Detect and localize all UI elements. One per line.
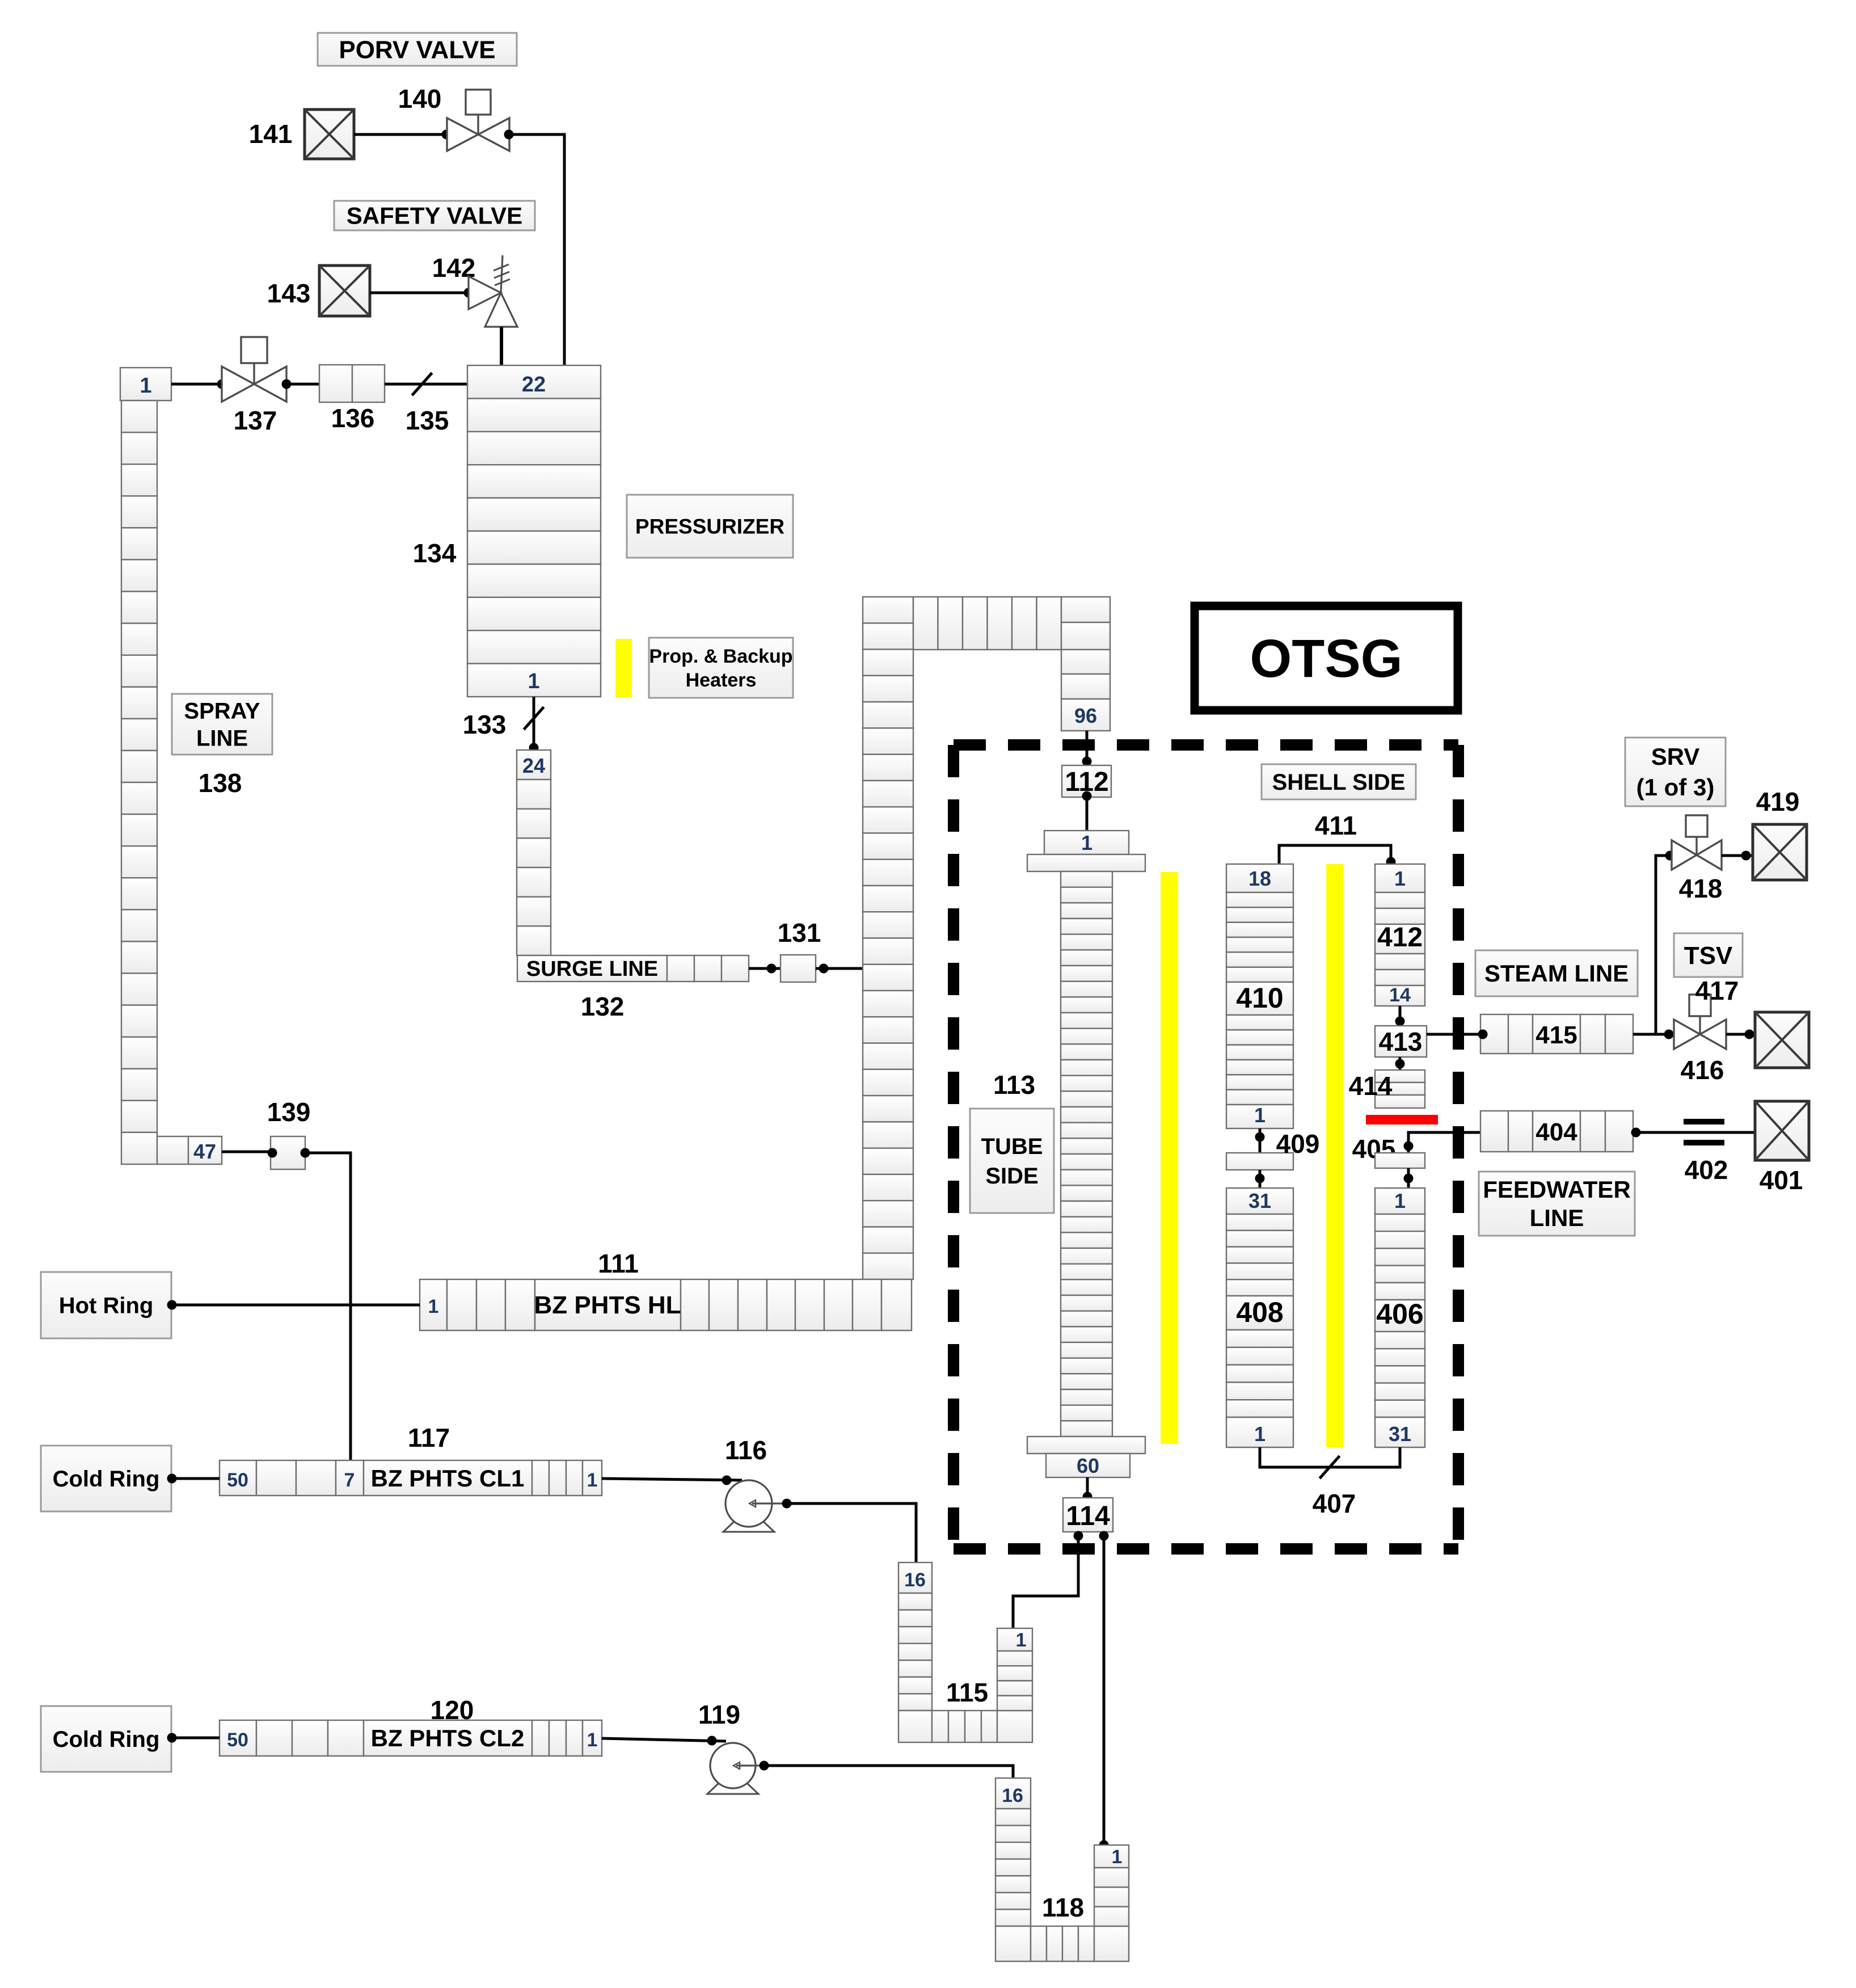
svg-text:1: 1: [587, 1729, 598, 1751]
wire pump 116 to pipe 115: [787, 1503, 916, 1562]
svg-text:96: 96: [1074, 704, 1097, 727]
junction dot: [1665, 851, 1675, 861]
label box Prop. & Backup Heaters: [649, 638, 793, 698]
wire 114 to pipe 115 inlet: [1013, 1532, 1078, 1628]
junction slash 135: [412, 373, 432, 395]
junction dot: [167, 1474, 177, 1484]
boundary volume 143: [319, 266, 370, 316]
svg-text:116: 116: [725, 1435, 767, 1465]
label box PORV VALVE: [318, 33, 517, 66]
svg-text:LINE: LINE: [1530, 1204, 1584, 1231]
shell side volume 406 column: [1375, 1188, 1425, 1447]
safety valve 142: [469, 255, 517, 327]
shell side volume 408 column: [1226, 1188, 1293, 1447]
svg-text:1: 1: [1016, 1629, 1027, 1651]
junction dot: [217, 380, 227, 389]
tube side top flange: [1027, 854, 1145, 871]
svg-text:(1 of 3): (1 of 3): [1636, 774, 1715, 801]
separator bars 402: [1684, 1119, 1724, 1124]
svg-text:Hot Ring: Hot Ring: [59, 1294, 154, 1319]
svg-text:18: 18: [1248, 867, 1271, 890]
svg-text:138: 138: [199, 768, 242, 798]
svg-text:113: 113: [993, 1070, 1035, 1100]
label box TSV: [1674, 933, 1743, 977]
label box PRESSURIZER: [627, 495, 793, 558]
junction dot: [167, 1733, 177, 1743]
PORV valve 140: [447, 90, 509, 151]
boundary volume 417: [1755, 1012, 1809, 1068]
cold leg pipe 117 (BZ PHTS CL1): [220, 1460, 602, 1496]
svg-text:16: 16: [904, 1569, 926, 1591]
wire valve 137 to volume 136: [286, 383, 319, 386]
volume 96 cell: [1061, 699, 1110, 731]
cold leg pipe 120 (BZ PHTS CL2): [220, 1720, 602, 1756]
svg-text:SIDE: SIDE: [985, 1164, 1038, 1189]
svg-text:1: 1: [1254, 1103, 1266, 1127]
label box Hot Ring: [41, 1272, 171, 1338]
pipe 115 left leg: [899, 1593, 932, 1711]
wire 404 to junction 405: [1408, 1132, 1480, 1153]
OTSG dashed boundary bottom edge: [954, 1543, 1458, 1555]
svg-text:STEAM LINE: STEAM LINE: [1484, 960, 1629, 987]
svg-text:50: 50: [227, 1729, 248, 1751]
wire pressurizer to surge line (junction 133): [533, 697, 535, 750]
svg-text:118: 118: [1042, 1893, 1084, 1922]
svg-text:140: 140: [398, 84, 442, 113]
boundary volume 401: [1755, 1101, 1809, 1160]
svg-text:Heaters: Heaters: [686, 669, 757, 691]
junction dot: [1099, 1840, 1109, 1850]
label box Cold Ring 1: [41, 1446, 171, 1511]
pipe 115 right leg volume 1 header: [997, 1628, 1032, 1651]
spray line pipe 138 bottom elbow: [157, 1136, 222, 1164]
wire 114 to pipe 118 inlet: [1103, 1532, 1106, 1845]
yellow heater bar (pressurizer): [615, 639, 632, 698]
svg-text:Cold Ring: Cold Ring: [53, 1467, 160, 1492]
SRV valve 418: [1672, 815, 1722, 870]
svg-text:411: 411: [1315, 811, 1357, 840]
hot leg U right leg pipe: [1061, 597, 1110, 699]
hot leg riser pipe (left leg of U): [863, 597, 913, 1279]
junction box 409: [1226, 1153, 1293, 1170]
junction box 131: [781, 955, 816, 982]
svg-text:SHELL SIDE: SHELL SIDE: [1272, 770, 1406, 795]
svg-text:SURGE LINE: SURGE LINE: [526, 957, 658, 981]
hot leg U top horizontal pipe: [913, 597, 1061, 650]
svg-text:415: 415: [1536, 1021, 1577, 1049]
junction dot: [1404, 1142, 1414, 1151]
svg-text:1: 1: [1394, 1189, 1406, 1212]
wire Cold Ring to 120: [171, 1737, 220, 1739]
svg-text:410: 410: [1236, 982, 1283, 1014]
junction box 405: [1375, 1153, 1425, 1168]
svg-text:412: 412: [1377, 923, 1423, 953]
label box SRV (1 of 3): [1625, 738, 1726, 806]
OTSG dashed boundary right edge: [1453, 745, 1464, 1549]
OTSG dashed boundary left edge: [948, 745, 959, 1549]
svg-text:406: 406: [1376, 1298, 1423, 1330]
junction dot: [1083, 1492, 1092, 1502]
svg-text:419: 419: [1756, 787, 1800, 816]
junction dot: [167, 1300, 177, 1310]
junction box 413: [1375, 1026, 1427, 1057]
svg-text:SAFETY VALVE: SAFETY VALVE: [347, 203, 522, 229]
wire 405 to 406: [1407, 1168, 1410, 1188]
junction dot: [722, 1476, 732, 1485]
shell side volume 410 column: [1226, 864, 1293, 1128]
junction box 112: [1062, 765, 1111, 797]
wire 14 to junction 413: [1399, 1006, 1402, 1026]
svg-text:16: 16: [1002, 1785, 1023, 1806]
svg-text:Cold Ring: Cold Ring: [53, 1727, 160, 1752]
junction dot: [707, 1736, 717, 1746]
svg-text:1: 1: [428, 1296, 439, 1317]
feedwater line pipe 404: [1480, 1111, 1633, 1152]
junction dot: [1478, 1030, 1488, 1039]
junction dot: [767, 964, 777, 974]
hot leg pipe 111 (BZ PHTS HL): [420, 1279, 912, 1330]
wire 112 to tube side top: [1086, 797, 1089, 831]
svg-text:131: 131: [778, 918, 821, 947]
wire 413 to steam line 415: [1427, 1033, 1480, 1036]
pump 119: [707, 1743, 770, 1794]
svg-text:133: 133: [463, 710, 507, 739]
svg-text:117: 117: [408, 1423, 450, 1452]
svg-text:409: 409: [1276, 1129, 1320, 1159]
junction dot: [1082, 791, 1092, 801]
svg-text:408: 408: [1236, 1296, 1283, 1328]
svg-text:BZ PHTS CL1: BZ PHTS CL1: [371, 1465, 525, 1492]
junction dot: [1074, 1531, 1083, 1541]
svg-text:1: 1: [1081, 831, 1092, 854]
wire 117 to pump 116: [602, 1479, 742, 1480]
wire 47 to junction 139: [222, 1151, 271, 1153]
pipe 115 left leg volume 16 header: [899, 1562, 932, 1593]
wire valve 418 to 419: [1722, 854, 1753, 857]
wire 413 to 414: [1399, 1057, 1402, 1070]
svg-text:SRV: SRV: [1651, 743, 1700, 770]
svg-text:31: 31: [1248, 1189, 1271, 1212]
junction dot: [819, 964, 829, 974]
wire 407 connecting 408 to 406: [1260, 1447, 1400, 1467]
wire junction 139 down to cold leg 117: [305, 1153, 351, 1460]
svg-text:414: 414: [1349, 1071, 1393, 1101]
junction box 114: [1063, 1498, 1113, 1532]
pipe 118 bottom: [996, 1926, 1129, 1961]
wire surge line to junction 131: [749, 967, 781, 970]
svg-text:143: 143: [267, 279, 311, 308]
junction dot: [1741, 851, 1751, 861]
junction dot: [1082, 757, 1092, 766]
junction dot: [1404, 1174, 1414, 1183]
junction dot: [1745, 1030, 1754, 1039]
svg-text:141: 141: [249, 119, 293, 149]
svg-text:OTSG: OTSG: [1250, 629, 1402, 689]
shell side volume 412 column: [1375, 864, 1425, 1006]
junction dot: [282, 380, 292, 389]
junction dot: [760, 1761, 769, 1771]
volume 136: [319, 365, 385, 402]
surge line horizontal pipe 132: [517, 955, 749, 982]
svg-text:402: 402: [1685, 1155, 1728, 1185]
boundary volume 419: [1753, 824, 1807, 880]
label box TUBE SIDE: [970, 1109, 1054, 1213]
TSV valve 416: [1674, 995, 1726, 1049]
tube side pipe 113: [1061, 871, 1112, 1437]
junction dot: [1099, 1531, 1109, 1541]
pressurizer volume 134: [467, 365, 601, 697]
svg-text:22: 22: [522, 373, 546, 397]
wire steam line branch up to SRV valve 418: [1656, 856, 1672, 1034]
wire safety valve to pressurizer top: [500, 327, 503, 367]
svg-text:139: 139: [267, 1097, 311, 1127]
label box FEEDWATER LINE: [1479, 1172, 1635, 1236]
spray line pipe 138 vertical: [121, 401, 157, 1164]
svg-text:115: 115: [946, 1678, 988, 1707]
junction dot: [442, 130, 452, 140]
junction dot: [1631, 1128, 1641, 1138]
svg-text:BZ PHTS CL2: BZ PHTS CL2: [371, 1725, 525, 1751]
junction dot: [782, 1499, 792, 1509]
svg-text:136: 136: [331, 403, 375, 433]
junction dot: [1395, 1059, 1405, 1069]
tube side top cap volume 1: [1044, 831, 1129, 854]
wire valve 140 to pressurizer top: [509, 134, 564, 367]
svg-text:134: 134: [413, 538, 457, 568]
wire 411 connecting 410 to 412: [1279, 845, 1391, 864]
wire Cold Ring to 117: [171, 1477, 220, 1480]
svg-text:TSV: TSV: [1684, 942, 1733, 970]
tube side bottom flange: [1027, 1437, 1145, 1454]
wire 410 to junction 409: [1259, 1128, 1262, 1153]
svg-text:407: 407: [1313, 1489, 1356, 1518]
svg-text:413: 413: [1379, 1027, 1423, 1056]
svg-text:7: 7: [344, 1469, 355, 1491]
surge line vertical pipe: [517, 780, 551, 955]
wire 141 to valve 140: [354, 133, 446, 136]
red heater bar 405 level: [1366, 1115, 1438, 1124]
junction box 139: [271, 1136, 305, 1169]
svg-text:LINE: LINE: [196, 726, 248, 751]
svg-text:416: 416: [1681, 1055, 1724, 1085]
junction dot: [464, 288, 474, 298]
pipe 118 left leg volume 16 header: [996, 1778, 1031, 1809]
junction dot: [1386, 857, 1396, 867]
boundary volume 141: [305, 109, 354, 159]
pipe 118 right leg volume 1 header: [1094, 1845, 1129, 1868]
pipe 118 left leg: [996, 1809, 1031, 1926]
svg-text:FEEDWATER: FEEDWATER: [1483, 1176, 1631, 1203]
wire pump 119 to pipe 118: [764, 1766, 1013, 1778]
yellow heat-transfer bar left (tube to shell): [1161, 872, 1178, 1444]
wire spray volume to valve 137: [171, 383, 222, 386]
svg-text:47: 47: [193, 1140, 216, 1163]
svg-text:1: 1: [1112, 1846, 1123, 1868]
svg-text:PORV VALVE: PORV VALVE: [339, 36, 495, 64]
junction dot: [529, 743, 539, 753]
svg-text:50: 50: [227, 1469, 248, 1491]
svg-text:BZ PHTS HL: BZ PHTS HL: [534, 1291, 681, 1319]
svg-text:1: 1: [528, 669, 539, 693]
svg-text:PRESSURIZER: PRESSURIZER: [635, 515, 784, 538]
wire 136 to pressurizer (junction 135): [385, 383, 467, 386]
junction dot: [1255, 1174, 1265, 1183]
label box SHELL SIDE: [1262, 764, 1416, 799]
svg-text:1: 1: [140, 374, 151, 398]
OTSG title box: [1195, 606, 1458, 710]
svg-text:418: 418: [1679, 874, 1723, 903]
label box SPRAY LINE: [172, 694, 272, 755]
svg-text:119: 119: [698, 1700, 740, 1729]
svg-text:401: 401: [1760, 1165, 1803, 1195]
wire 415 to TSV valve 416: [1633, 1033, 1674, 1036]
spray valve 137: [222, 337, 286, 402]
junction dot: [268, 1148, 277, 1158]
svg-text:60: 60: [1077, 1454, 1099, 1477]
svg-text:1: 1: [1254, 1422, 1266, 1446]
svg-text:Prop. & Backup: Prop. & Backup: [649, 646, 792, 667]
svg-text:417: 417: [1695, 976, 1739, 1005]
junction slash 407: [1319, 1456, 1339, 1479]
wire 60 to junction 114: [1086, 1477, 1089, 1498]
shell side volume 414 column: [1375, 1070, 1425, 1108]
tube side bottom cap volume 60: [1046, 1454, 1130, 1477]
svg-text:TUBE: TUBE: [981, 1134, 1043, 1159]
svg-text:31: 31: [1389, 1422, 1411, 1446]
wire 404 to boundary 401: [1633, 1131, 1755, 1134]
wire 96 to junction 112: [1086, 731, 1089, 765]
pipe 115 bottom: [899, 1711, 1032, 1742]
svg-text:SPRAY: SPRAY: [184, 699, 260, 724]
wire valve 416 to 417: [1726, 1033, 1755, 1036]
yellow heat-transfer bar right (shell columns): [1326, 864, 1343, 1447]
svg-text:114: 114: [1066, 1501, 1110, 1531]
junction slash 133: [524, 707, 543, 730]
svg-text:404: 404: [1536, 1118, 1577, 1146]
label box Cold Ring 2: [41, 1706, 171, 1772]
OTSG dashed boundary top edge: [954, 739, 1458, 751]
pipe 115 right leg: [997, 1651, 1032, 1711]
junction dot: [1255, 1132, 1265, 1142]
svg-text:1: 1: [587, 1469, 598, 1491]
label box SAFETY VALVE: [334, 201, 535, 230]
svg-text:132: 132: [581, 992, 625, 1021]
junction dot: [504, 130, 514, 140]
label box STEAM LINE: [1475, 950, 1638, 996]
svg-text:1: 1: [1394, 867, 1406, 890]
junction dot: [301, 1148, 310, 1158]
steam line pipe 415: [1480, 1014, 1633, 1054]
svg-text:111: 111: [598, 1249, 639, 1278]
junction dot: [1395, 1017, 1405, 1026]
wire 120 to pump 119: [602, 1738, 726, 1741]
pipe 118 right leg: [1094, 1868, 1129, 1926]
wire 409 to 408: [1259, 1170, 1262, 1188]
wire 143 to safety valve 142: [370, 292, 469, 294]
svg-text:14: 14: [1389, 984, 1411, 1006]
junction dot: [1664, 1030, 1674, 1039]
spray line inlet volume 1: [120, 368, 171, 401]
svg-text:137: 137: [234, 406, 277, 435]
wire Hot Ring to 111: [171, 1304, 420, 1307]
surge line volume 24 header: [517, 750, 551, 780]
pump 116: [723, 1480, 787, 1532]
svg-text:24: 24: [522, 754, 545, 777]
wire junction 131 to hot leg riser: [816, 967, 863, 970]
svg-text:135: 135: [406, 406, 449, 435]
